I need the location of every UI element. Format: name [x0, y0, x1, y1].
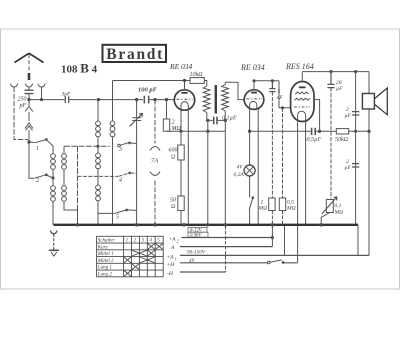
variable capacitor (tuning): [132, 100, 141, 225]
resistor 10kOhm: [190, 78, 204, 84]
wire rail drop to V3 grid: [279, 81, 291, 108]
wire V3 anode to top rail: [301, 72, 303, 82]
coil C2 (reaction): [112, 81, 114, 121]
wire +A1 drop (0,5M line): [284, 226, 286, 255]
svg-text:1: 1: [126, 239, 128, 244]
svg-text:Brandt: Brandt: [106, 46, 163, 63]
svg-text:4V: 4V: [237, 164, 244, 171]
node A2 junction: [271, 236, 273, 238]
logo box Brandt: [103, 45, 167, 63]
svg-text:MΩ: MΩ: [286, 206, 296, 212]
capacitor 2uF (upper): [352, 112, 359, 115]
tube V2 internals: [246, 98, 262, 100]
svg-text:µF: µF: [345, 165, 352, 171]
node coil junction: [52, 177, 54, 179]
speaker: [368, 72, 370, 94]
wire V2 anode rail: [254, 81, 279, 90]
svg-text:+A: +A: [169, 237, 177, 243]
table X marks Lang2 1: [124, 271, 131, 277]
svg-text:RE 034: RE 034: [169, 62, 193, 71]
SECTION: band switch coils: [29, 81, 137, 225]
resistor 600 Ohm: [178, 145, 184, 160]
tube V1 internals: [177, 98, 193, 100]
wire output rail y=71.6: [302, 71, 369, 73]
wire grid-leak return y=131: [167, 130, 226, 132]
svg-text:Kurz: Kurz: [97, 245, 108, 250]
switch (filament on/off): [249, 197, 253, 210]
page frame (decorative scan border): [1, 29, 400, 289]
coil C3: [97, 146, 99, 152]
table X marks Mittel2 1,3-4: [124, 257, 155, 263]
svg-text:pF: pF: [19, 103, 27, 109]
svg-text:RES 164: RES 164: [285, 62, 314, 71]
svg-text:Mittel 1: Mittel 1: [97, 252, 114, 257]
switch 3: [113, 143, 137, 225]
svg-text:Lang 2: Lang 2: [97, 272, 113, 277]
wire 20uF column down: [330, 88, 332, 199]
node grid wire / tuning cap: [135, 98, 137, 100]
node bus / -H drop: [224, 224, 227, 227]
transformer T1 secondary winding: [222, 85, 229, 121]
wire audio output y=131.3: [250, 130, 311, 132]
wire 0,5MOhm drop: [282, 108, 284, 198]
terminal -H line: [180, 271, 226, 273]
wire V1 filament legs: [181, 109, 188, 225]
svg-text:7A: 7A: [151, 158, 158, 165]
svg-text:-H: -H: [167, 271, 174, 277]
capacitor 2uF (lower): [352, 164, 359, 167]
node grid wire / grid leak: [165, 98, 167, 100]
resistor 2 MOhm (detector bias): [269, 198, 275, 211]
node audio tap: [248, 130, 250, 132]
wire 5nF down to 2MOhm: [271, 92, 273, 198]
SECTION: band switch table: [97, 236, 164, 276]
svg-text:Lang 1: Lang 1: [97, 266, 112, 271]
coil C1 (middle column): [97, 100, 99, 121]
SECTION: tuning / tube 1: [113, 78, 226, 225]
wire main grid line y=100: [29, 99, 175, 101]
capacitor 250 pF: [25, 90, 34, 93]
antenna coil L1: [28, 54, 30, 72]
wire A drop: [271, 226, 273, 247]
SECTION: interstage transformer: [203, 82, 244, 225]
jack socket left: [11, 84, 18, 87]
jack socket antenna: [26, 84, 33, 91]
node grid wire / coil C1: [97, 98, 99, 100]
svg-text:2: 2: [177, 239, 179, 244]
wire V2 filament legs: [250, 109, 259, 225]
capacitor 0,5uF: [312, 128, 316, 135]
node secondary bottom drop: [224, 119, 226, 121]
voltage box 8-12V: [188, 227, 207, 232]
node jack2/grid wire: [40, 99, 42, 101]
svg-text:Mittel 2: Mittel 2: [97, 259, 114, 264]
wire secondary top to V2 grid: [225, 82, 244, 99]
wire 2uF column: [355, 72, 357, 225]
svg-text:0,1µF: 0,1µF: [222, 116, 237, 122]
wire primary bottom to 0,1uF: [206, 113, 213, 121]
wire anode rail y=80.5: [113, 80, 191, 82]
table X marks Mittel1 2-3,4: [132, 250, 155, 256]
svg-text:10kΩ: 10kΩ: [190, 72, 204, 78]
tube V2 RE034 envelope: [244, 90, 264, 110]
node grid-leak V3: [281, 107, 283, 109]
node primary bottom drop: [207, 119, 209, 121]
svg-text:50: 50: [170, 198, 176, 204]
SECTION: ground bus and battery terminals: [49, 224, 369, 273]
node speaker/audio: [368, 130, 370, 132]
wire V1 anode to rail: [184, 81, 186, 90]
coil B2: [62, 186, 67, 191]
svg-text:Ω: Ω: [171, 204, 176, 210]
SECTION: output tube and speaker: [250, 71, 388, 263]
svg-text:100 pF: 100 pF: [138, 87, 158, 94]
capacitor 0,1uF: [214, 117, 217, 125]
tube V3 RES164 envelope: [291, 82, 314, 122]
wire dashed link top: [64, 145, 110, 147]
node V2 anode rail: [253, 80, 255, 82]
svg-text:0,1: 0,1: [335, 203, 342, 209]
node y131/x209.5: [207, 130, 209, 132]
resistor 50 Ohm: [178, 196, 184, 211]
node antenna/switch junction: [28, 141, 30, 143]
wire dashed link vertical: [77, 146, 79, 210]
node 20uF tap: [330, 71, 332, 73]
svg-text:90-150V: 90-150V: [187, 250, 206, 256]
svg-text:5: 5: [116, 215, 119, 221]
coil 7A variometer marks: [150, 147, 160, 151]
terminal A line: [180, 246, 272, 248]
svg-text:MΩ: MΩ: [258, 206, 268, 212]
transformer T1 core: [215, 85, 217, 114]
switch 1: [29, 140, 46, 143]
svg-text:MΩ: MΩ: [171, 126, 182, 132]
node rail/anode: [183, 79, 185, 81]
coil L2 variometer: [25, 107, 33, 143]
capacitor 100 pF: [144, 96, 148, 104]
capacitor 20uF: [327, 72, 334, 88]
svg-text:+A: +A: [167, 255, 175, 261]
coil C4: [97, 176, 99, 184]
svg-text:4: 4: [119, 177, 122, 184]
SECTION: antenna input: [11, 53, 175, 143]
table frame: [97, 236, 164, 276]
wire V3 filament legs: [298, 122, 306, 263]
node antenna/grid wire: [28, 98, 30, 100]
svg-text:4V: 4V: [189, 257, 196, 264]
ground symbol: [51, 231, 57, 234]
svg-text:RE 034: RE 034: [240, 63, 265, 72]
node 5nF tap: [271, 80, 273, 82]
tube V1 RE034 envelope: [174, 90, 194, 110]
table X marks Lang1 2: [132, 264, 139, 270]
node bus / V1 filament: [183, 224, 186, 227]
node 2uF top: [355, 71, 357, 73]
svg-text:2: 2: [172, 120, 175, 126]
svg-text:3pF: 3pF: [61, 92, 72, 98]
svg-text:Ω: Ω: [171, 155, 176, 161]
svg-text:108 B 4: 108 B 4: [61, 61, 98, 76]
node bus / A drop: [271, 224, 274, 227]
coil A1: [47, 140, 54, 153]
node bus / coil B2: [76, 224, 79, 227]
resistor 0,5 MOhm: [279, 198, 285, 211]
wire -H drop: [225, 226, 227, 272]
svg-text:µF: µF: [336, 86, 343, 92]
node 50k/2uF column: [355, 130, 357, 132]
svg-text:0,2A: 0,2A: [234, 172, 245, 178]
wire speaker return: [368, 109, 370, 255]
lamp 4V 0,2A: [244, 165, 255, 176]
wire V3 plate tap right: [314, 100, 320, 132]
wire ground bus: [54, 224, 359, 226]
terminal +H line: [180, 262, 298, 264]
tube V3 internals: [299, 86, 306, 88]
svg-text:+H: +H: [167, 262, 176, 268]
svg-text:1: 1: [175, 257, 177, 262]
svg-text:MΩ: MΩ: [334, 210, 344, 216]
svg-text:nF: nF: [277, 95, 284, 101]
wire drops to bus from transformer: [208, 120, 226, 224]
svg-text:1: 1: [36, 146, 39, 152]
variable resistor 0,1 MOhm: [326, 200, 333, 213]
wire antenna column to switch 2: [29, 142, 35, 178]
node bus / coil 7A: [154, 224, 157, 227]
terminal +A2 line: [182, 237, 273, 239]
svg-text:600: 600: [169, 148, 178, 154]
svg-text:Schalter: Schalter: [98, 239, 115, 244]
resistor 50kOhm: [336, 129, 348, 134]
node 0,5uF/V3 tap: [318, 130, 320, 132]
node bus / transformer drop: [206, 224, 209, 227]
svg-text:250: 250: [18, 97, 27, 103]
switch 5: [98, 210, 137, 214]
node bus / tuning column: [135, 224, 138, 227]
transformer T1 primary winding: [203, 86, 210, 113]
table X marks Kurz 4,5: [148, 244, 163, 250]
antenna: [15, 53, 44, 62]
coil A2: [63, 146, 65, 153]
svg-text:2: 2: [36, 178, 39, 184]
svg-text:A: A: [170, 245, 175, 251]
node grid wire / coil 7A: [154, 98, 156, 100]
jack socket right: [38, 84, 45, 100]
SECTION: tube 2 stage: [244, 80, 291, 225]
capacitor 5nF: [269, 81, 275, 92]
coil B1: [52, 178, 54, 185]
SECTION: tube1 cathode chain: [178, 109, 189, 225]
terminal +A1 line: [180, 254, 369, 256]
switch 4: [78, 173, 137, 177]
node bus / volume control: [320, 224, 323, 227]
wire bus end drop: [357, 225, 359, 256]
switch 2: [35, 175, 46, 178]
capacitor 3pF: [65, 96, 68, 103]
svg-text:0,96V: 0,96V: [190, 234, 202, 239]
svg-text:µF: µF: [345, 113, 352, 119]
svg-text:3: 3: [118, 147, 122, 153]
resistor 2 MOhm grid leak: [166, 100, 168, 132]
switch +H: [270, 260, 282, 262]
svg-text:50kΩ: 50kΩ: [335, 137, 349, 143]
voltage box 0,96V: [188, 232, 208, 237]
svg-text:0,5µF: 0,5µF: [307, 137, 322, 143]
